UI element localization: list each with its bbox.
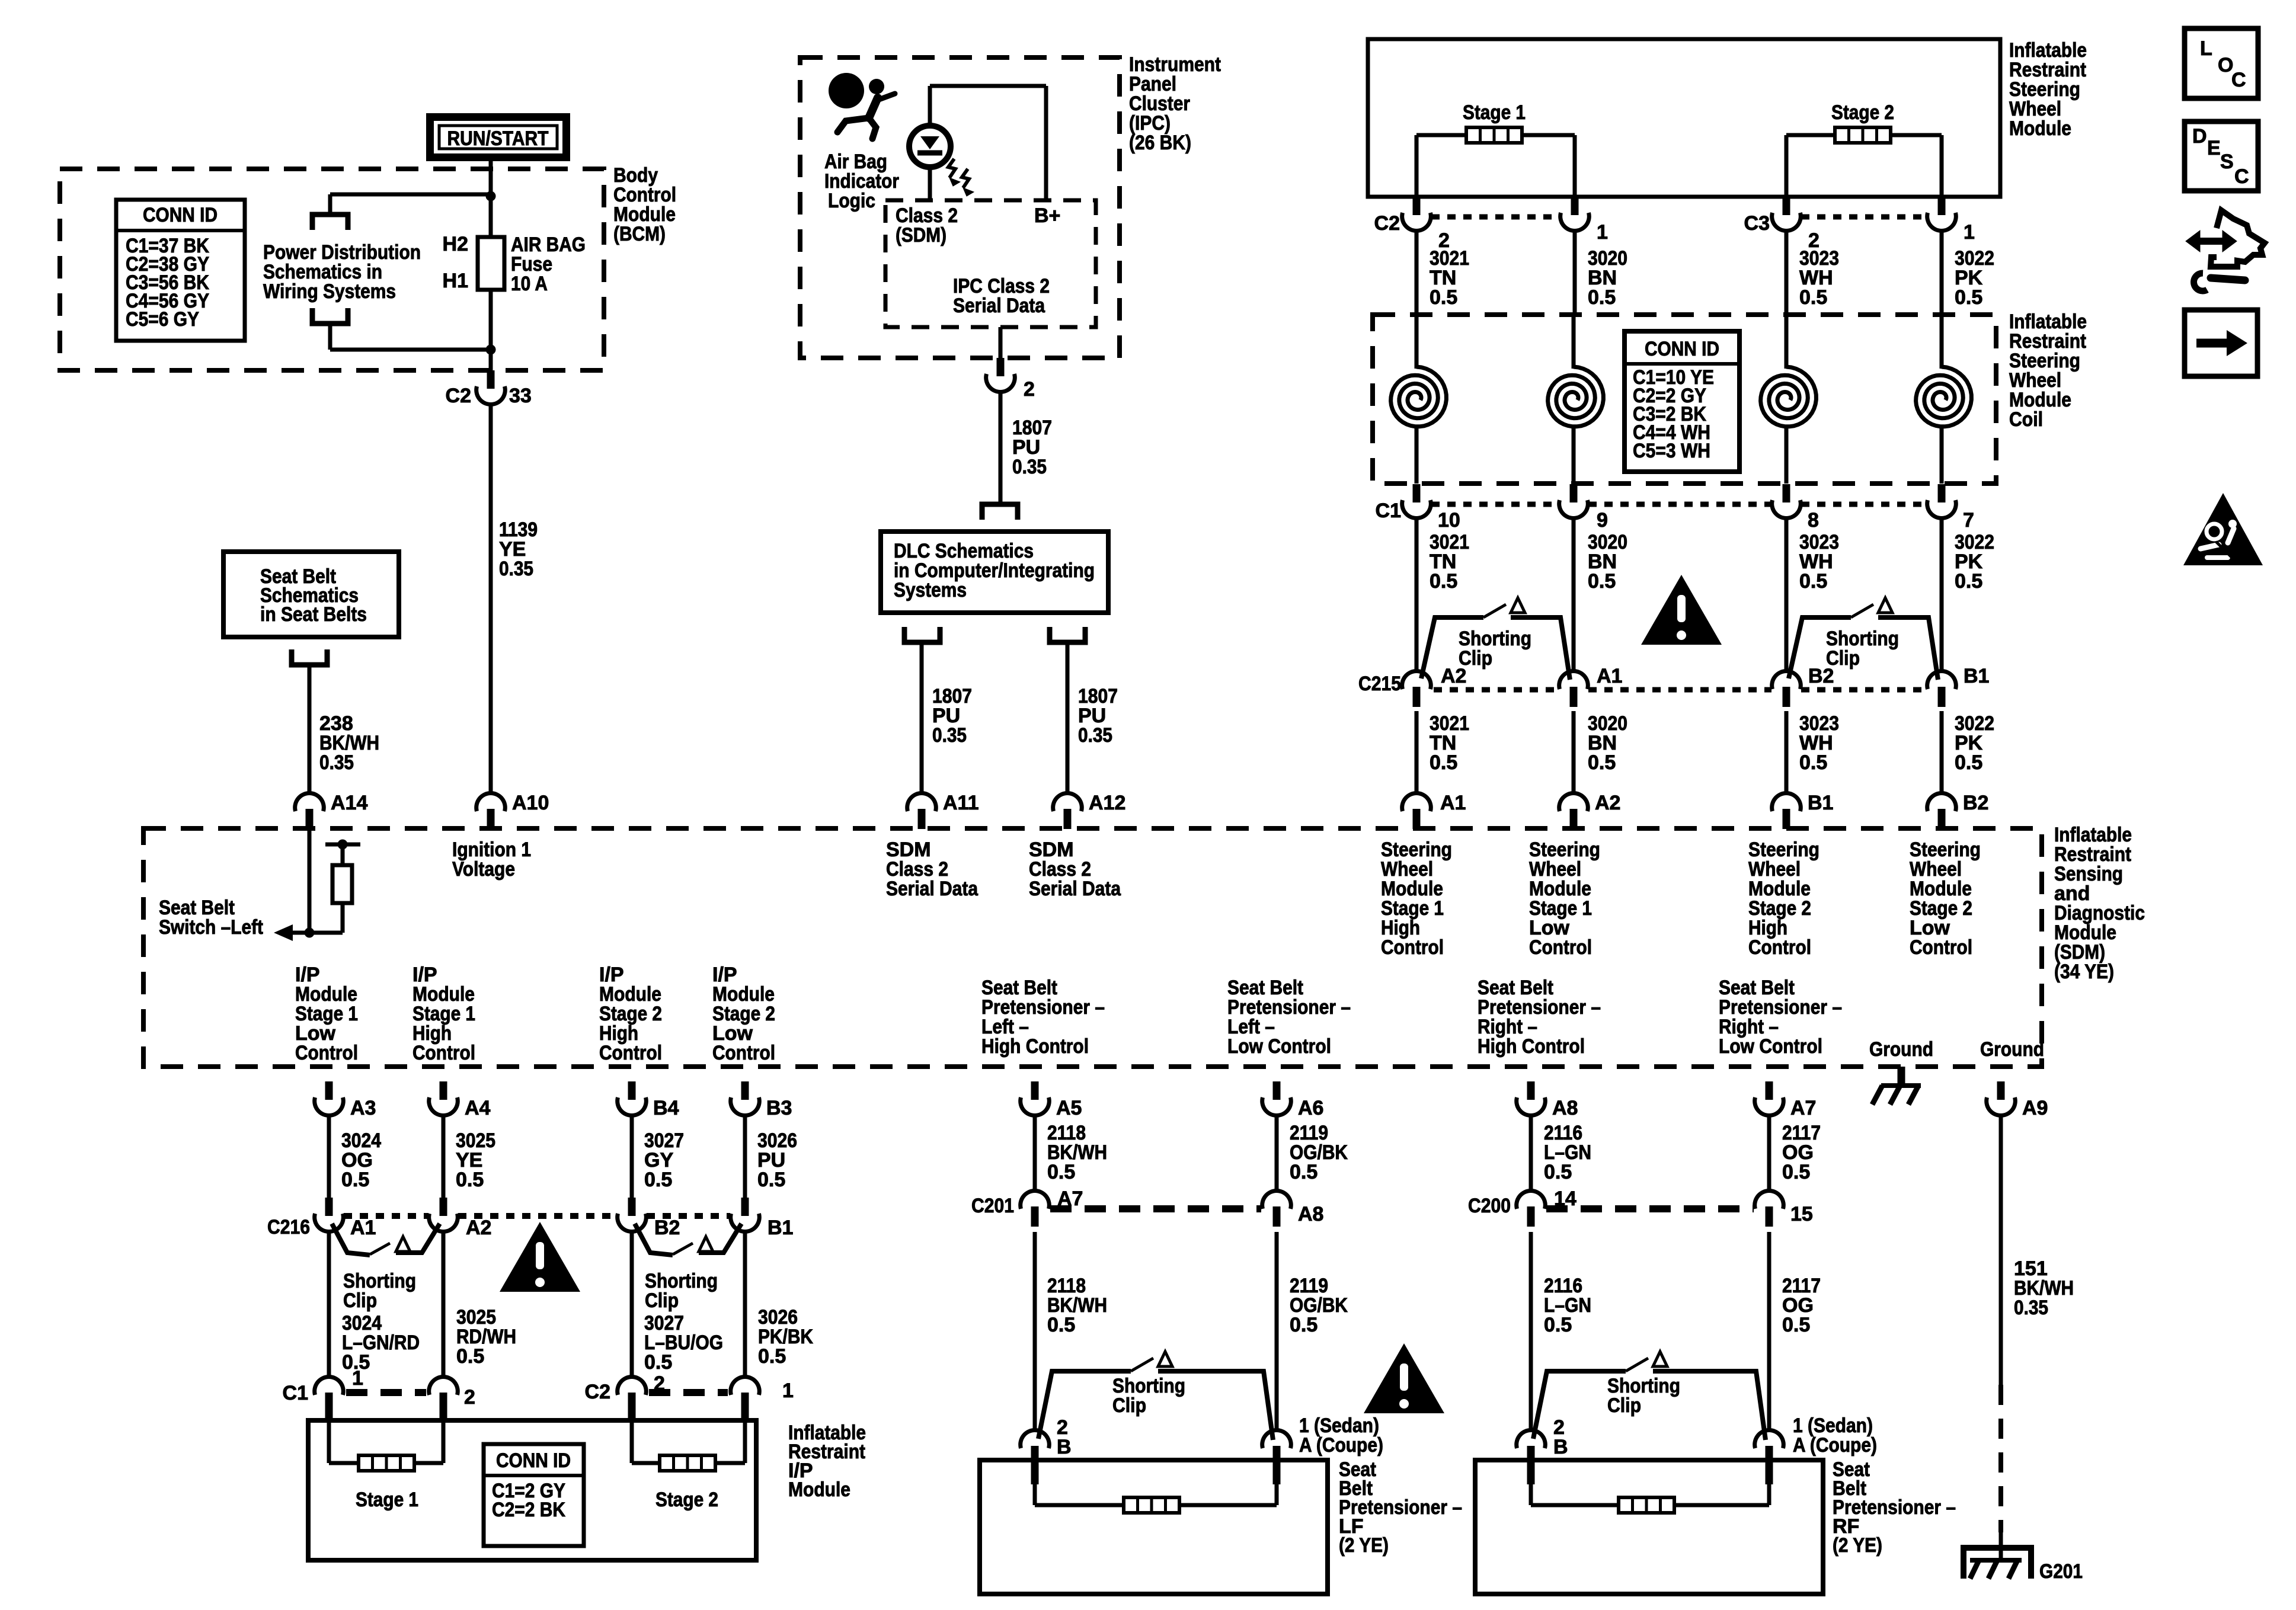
svg-text:B: B — [1553, 1436, 1568, 1458]
svg-text:0.5: 0.5 — [1047, 1314, 1075, 1336]
svg-text:15: 15 — [1790, 1203, 1813, 1225]
svg-text:A7: A7 — [1790, 1097, 1816, 1119]
svg-text:0.5: 0.5 — [456, 1345, 484, 1368]
svg-text:A2: A2 — [1595, 792, 1620, 814]
svg-text:G201: G201 — [2039, 1560, 2083, 1583]
svg-text:A7: A7 — [1057, 1188, 1083, 1210]
svg-text:0.5: 0.5 — [644, 1351, 672, 1374]
svg-text:10 A: 10 A — [511, 273, 548, 295]
svg-text:Module: Module — [2009, 117, 2071, 140]
svg-text:0.5: 0.5 — [1799, 286, 1827, 309]
svg-text:CONN ID: CONN ID — [1645, 338, 1719, 360]
svg-text:8: 8 — [1808, 509, 1819, 532]
svg-text:A1: A1 — [1597, 665, 1622, 687]
svg-text:(BCM): (BCM) — [613, 223, 666, 245]
svg-text:0.5: 0.5 — [1955, 286, 1982, 309]
svg-text:0.5: 0.5 — [1782, 1161, 1810, 1183]
svg-text:A2: A2 — [1441, 665, 1466, 687]
svg-text:High Control: High Control — [981, 1035, 1089, 1058]
svg-text:0.5: 0.5 — [1588, 570, 1616, 593]
svg-text:Voltage: Voltage — [452, 858, 515, 881]
svg-text:0.35: 0.35 — [932, 724, 967, 747]
svg-text:C201: C201 — [971, 1195, 1014, 1217]
svg-text:B3: B3 — [766, 1097, 792, 1119]
svg-text:A10: A10 — [512, 792, 549, 814]
svg-text:9: 9 — [1597, 509, 1608, 532]
svg-text:0.5: 0.5 — [1588, 286, 1616, 309]
svg-text:C: C — [2231, 69, 2246, 91]
svg-text:in Seat Belts: in Seat Belts — [260, 603, 367, 626]
svg-text:C3: C3 — [1744, 212, 1770, 235]
svg-text:C2: C2 — [446, 385, 471, 407]
svg-text:A1: A1 — [1440, 792, 1466, 814]
svg-text:0.35: 0.35 — [1012, 456, 1047, 478]
svg-text:B4: B4 — [653, 1097, 679, 1119]
svg-text:CONN ID: CONN ID — [143, 204, 218, 226]
svg-text:0.5: 0.5 — [1430, 570, 1457, 593]
svg-text:C2=2 BK: C2=2 BK — [492, 1499, 565, 1521]
svg-text:L: L — [2200, 37, 2212, 60]
svg-text:(34 YE): (34 YE) — [2054, 961, 2114, 983]
svg-text:A5: A5 — [1056, 1097, 1082, 1119]
svg-text:0.5: 0.5 — [758, 1345, 786, 1368]
svg-text:High Control: High Control — [1478, 1035, 1585, 1058]
svg-text:Low Control: Low Control — [1227, 1035, 1331, 1058]
svg-text:0.5: 0.5 — [1544, 1314, 1572, 1336]
svg-text:(26 BK): (26 BK) — [1129, 132, 1191, 154]
svg-text:0.35: 0.35 — [319, 751, 354, 774]
svg-text:33: 33 — [509, 385, 532, 407]
svg-text:0.5: 0.5 — [1430, 751, 1457, 774]
svg-text:(SDM): (SDM) — [896, 224, 946, 247]
svg-text:Stage 1: Stage 1 — [1463, 101, 1526, 124]
svg-text:CONN ID: CONN ID — [496, 1449, 571, 1472]
svg-text:Clip: Clip — [1112, 1394, 1146, 1417]
svg-text:H1: H1 — [443, 270, 468, 292]
svg-text:Control: Control — [1381, 936, 1444, 959]
svg-text:Ground: Ground — [1980, 1038, 2044, 1061]
svg-text:0.5: 0.5 — [1799, 570, 1827, 593]
svg-text:B1: B1 — [1964, 665, 1989, 687]
svg-text:Stage 2: Stage 2 — [1831, 101, 1894, 124]
svg-text:14: 14 — [1554, 1188, 1576, 1210]
svg-text:1: 1 — [1964, 221, 1975, 244]
svg-text:Ground: Ground — [1869, 1038, 1933, 1061]
svg-text:B2: B2 — [1808, 665, 1834, 687]
svg-text:C5=3 WH: C5=3 WH — [1633, 440, 1710, 462]
svg-text:Clip: Clip — [1607, 1394, 1641, 1417]
svg-text:A3: A3 — [350, 1097, 376, 1119]
svg-text:0.5: 0.5 — [1047, 1161, 1075, 1183]
svg-text:1: 1 — [782, 1379, 794, 1402]
svg-text:0.5: 0.5 — [456, 1169, 484, 1191]
svg-text:10: 10 — [1438, 509, 1460, 532]
svg-text:Control: Control — [295, 1042, 358, 1064]
svg-text:B2: B2 — [1963, 792, 1988, 814]
svg-text:0.5: 0.5 — [757, 1169, 785, 1191]
svg-text:7: 7 — [1963, 509, 1974, 532]
svg-text:0.5: 0.5 — [1588, 751, 1616, 774]
svg-text:(2 YE): (2 YE) — [1339, 1534, 1389, 1557]
svg-text:(2 YE): (2 YE) — [1833, 1534, 1882, 1557]
svg-text:A12: A12 — [1089, 792, 1125, 814]
svg-text:Logic: Logic — [828, 190, 875, 212]
svg-text:A8: A8 — [1552, 1097, 1578, 1119]
svg-text:B1: B1 — [768, 1217, 793, 1239]
svg-text:0.5: 0.5 — [1782, 1314, 1810, 1336]
svg-text:RUN/START: RUN/START — [447, 127, 549, 150]
svg-text:Low Control: Low Control — [1719, 1035, 1822, 1058]
svg-text:C: C — [2234, 165, 2249, 188]
svg-text:Clip: Clip — [645, 1289, 679, 1312]
svg-text:Wiring Systems: Wiring Systems — [263, 280, 396, 303]
svg-text:Control: Control — [1910, 936, 1972, 959]
svg-text:Control: Control — [599, 1042, 662, 1064]
svg-text:0.5: 0.5 — [1290, 1161, 1318, 1183]
svg-text:0.5: 0.5 — [1955, 751, 1982, 774]
svg-text:C2: C2 — [1374, 212, 1400, 235]
svg-text:C2: C2 — [585, 1381, 610, 1403]
svg-text:A2: A2 — [466, 1217, 491, 1239]
svg-text:0.5: 0.5 — [341, 1169, 369, 1191]
svg-text:Module: Module — [788, 1478, 850, 1501]
svg-text:Stage 2: Stage 2 — [655, 1489, 718, 1511]
svg-text:A8: A8 — [1298, 1203, 1323, 1225]
svg-text:2: 2 — [654, 1372, 665, 1395]
svg-text:B+: B+ — [1034, 204, 1060, 227]
svg-text:A11: A11 — [943, 792, 979, 814]
svg-text:Switch –Left: Switch –Left — [159, 916, 263, 939]
svg-text:Coil: Coil — [2009, 408, 2043, 431]
svg-text:0.35: 0.35 — [2014, 1297, 2048, 1319]
svg-text:Systems: Systems — [894, 579, 967, 601]
svg-text:Control: Control — [1748, 936, 1811, 959]
svg-text:Serial Data: Serial Data — [953, 295, 1045, 317]
svg-text:A1: A1 — [350, 1217, 376, 1239]
svg-text:C1: C1 — [283, 1382, 308, 1404]
svg-text:A6: A6 — [1298, 1097, 1323, 1119]
svg-text:0.5: 0.5 — [1799, 751, 1827, 774]
svg-text:Serial Data: Serial Data — [886, 878, 978, 900]
svg-text:A (Coupe): A (Coupe) — [1299, 1434, 1383, 1457]
svg-text:D: D — [2192, 125, 2207, 148]
svg-text:B: B — [1057, 1436, 1072, 1458]
svg-text:2: 2 — [1024, 378, 1035, 401]
svg-text:2: 2 — [464, 1386, 475, 1409]
svg-text:Clip: Clip — [343, 1289, 377, 1312]
svg-text:B1: B1 — [1808, 792, 1833, 814]
svg-text:1: 1 — [352, 1367, 363, 1390]
svg-text:Control: Control — [412, 1042, 475, 1064]
svg-text:0.5: 0.5 — [644, 1169, 672, 1191]
svg-text:A9: A9 — [2022, 1097, 2048, 1119]
svg-text:C215: C215 — [1358, 673, 1401, 695]
svg-text:C5=6 GY: C5=6 GY — [126, 308, 199, 331]
svg-text:Control: Control — [1529, 936, 1592, 959]
svg-text:A (Coupe): A (Coupe) — [1793, 1434, 1877, 1457]
svg-text:1: 1 — [1597, 221, 1608, 244]
svg-text:0.35: 0.35 — [499, 558, 533, 580]
svg-text:Serial Data: Serial Data — [1029, 878, 1121, 900]
svg-text:A4: A4 — [465, 1097, 491, 1119]
svg-text:0.5: 0.5 — [1544, 1161, 1572, 1183]
svg-text:Stage 1: Stage 1 — [356, 1489, 418, 1511]
svg-text:S: S — [2220, 151, 2234, 173]
svg-text:0.5: 0.5 — [1955, 570, 1982, 593]
svg-text:E: E — [2207, 137, 2221, 159]
svg-text:A14: A14 — [331, 792, 367, 814]
svg-text:B2: B2 — [654, 1217, 680, 1239]
svg-text:C1: C1 — [1376, 500, 1401, 522]
svg-text:0.35: 0.35 — [1078, 724, 1112, 747]
svg-text:C216: C216 — [267, 1216, 310, 1238]
svg-text:0.5: 0.5 — [1430, 286, 1457, 309]
svg-text:Control: Control — [712, 1042, 775, 1064]
svg-text:H2: H2 — [443, 233, 468, 255]
svg-text:C200: C200 — [1468, 1195, 1511, 1217]
svg-text:0.5: 0.5 — [1290, 1314, 1318, 1336]
